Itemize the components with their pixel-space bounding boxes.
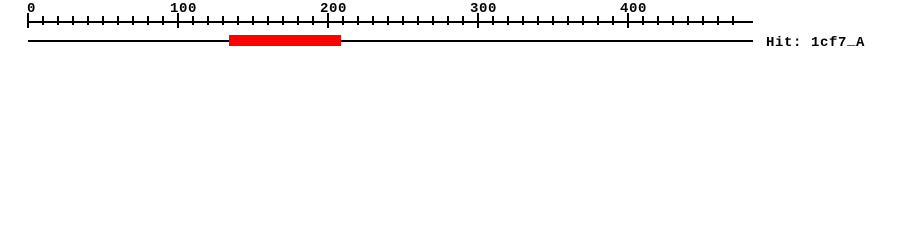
- svg-text:200: 200: [320, 1, 347, 17]
- svg-text:300: 300: [470, 1, 497, 17]
- major tick 0: [27, 13, 29, 28]
- svg-text:Hit: 1cf7_A: Hit: 1cf7_A: [766, 33, 865, 51]
- hit region bar: [229, 35, 341, 46]
- ruler axis line: [28, 21, 753, 23]
- major tick 100: [177, 13, 179, 28]
- svg-text:400: 400: [620, 1, 647, 17]
- svg-text:0: 0: [27, 1, 36, 17]
- sequence line: [28, 40, 753, 42]
- minor ticks: [42, 16, 734, 25]
- major tick 300: [477, 13, 479, 28]
- svg-text:100: 100: [170, 1, 197, 17]
- major tick 400: [627, 13, 629, 28]
- major tick 200: [327, 13, 329, 28]
